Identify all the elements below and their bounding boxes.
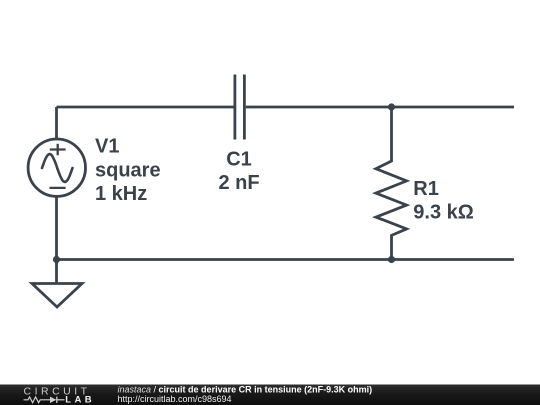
label V1 value "square" [95, 160, 161, 182]
svg-text:9.3 kΩ: 9.3 kΩ [413, 201, 474, 223]
svg-text:http://circuitlab.com/c98s694: http://circuitlab.com/c98s694 [118, 394, 232, 404]
V1 plus sign [50, 144, 66, 156]
node junction dot bottom left [53, 256, 60, 263]
node junction dot bottom right [388, 256, 395, 263]
svg-text:inastaca / circuit de derivare: inastaca / circuit de derivare CR in ten… [118, 385, 373, 395]
label R1 value "9.3 kOhm" [413, 201, 474, 223]
wire bottom horizontal [57, 258, 515, 261]
wire V1 top lead [55, 107, 58, 139]
capacitor C1 right plate [243, 75, 246, 140]
svg-text:1 kHz: 1 kHz [95, 183, 147, 205]
label C1 [226, 148, 252, 170]
wire top-left horizontal [57, 106, 234, 109]
label C1 value "2 nF" [218, 172, 259, 194]
svg-text:LAB: LAB [65, 395, 95, 405]
resistor R1 zigzag [376, 107, 407, 260]
svg-text:C1: C1 [226, 148, 252, 170]
svg-text:R1: R1 [413, 178, 439, 200]
ground symbol [32, 284, 82, 308]
capacitor C1 left plate [233, 75, 236, 140]
wire V1 bottom lead to ground [55, 197, 58, 284]
label R1 [413, 178, 439, 200]
svg-text:2 nF: 2 nF [218, 172, 259, 194]
wire top-right horizontal [246, 106, 514, 109]
svg-text:square: square [95, 160, 161, 182]
svg-text:V1: V1 [95, 136, 119, 158]
footer bar [0, 385, 540, 405]
logo diode symbol [50, 397, 56, 403]
node junction dot top right [388, 103, 395, 110]
voltage source V1 circle [28, 139, 85, 196]
label V1 value "1 kHz" [95, 183, 147, 205]
V1 minus sign [50, 187, 66, 189]
label V1 [95, 136, 119, 158]
logo circuit glyph wire+resistor [24, 397, 51, 403]
V1 sine wave [42, 154, 73, 182]
